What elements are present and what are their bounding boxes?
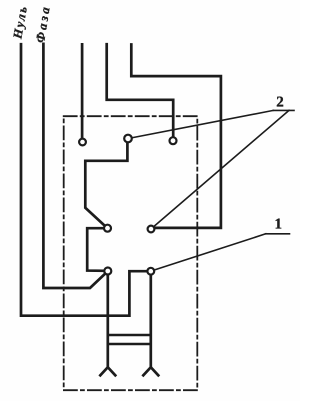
svg-text:2: 2 xyxy=(276,94,284,110)
callout 1 leader horizontal xyxy=(266,233,290,235)
callout 1 leader to lamp contact xyxy=(155,234,266,270)
switch contact (node 2, upper) xyxy=(124,135,132,143)
contact node 2 lower xyxy=(148,226,155,233)
callout 2 leader to switch contact upper xyxy=(133,110,273,137)
callout 2 leader to switch contact lower xyxy=(154,110,289,226)
svg-text:Фаза: Фаза xyxy=(33,4,53,44)
switch arm wire from contact 2 down to contact pair xyxy=(85,143,127,225)
svg-text:1: 1 xyxy=(275,217,283,233)
socket contact A xyxy=(79,139,86,146)
enclosure dash-dot box xyxy=(64,116,198,390)
contact lower-left xyxy=(104,268,111,275)
heater pin left plug fork xyxy=(100,367,115,375)
heater pin right plug fork xyxy=(143,367,158,375)
heater pin left xyxy=(106,275,109,367)
wire neutral (Нуль): left vertical, bottom run, up to lamp-side contact xyxy=(21,44,146,316)
wire to switch fixed contact xyxy=(131,45,221,228)
wire phase (Фаза): vertical, lower run, diagonal to moving contact xyxy=(43,44,104,288)
svg-text:Нуль: Нуль xyxy=(10,4,30,41)
heating element bar top xyxy=(108,334,151,336)
wire to socket contact B xyxy=(107,44,174,136)
socket contact B xyxy=(170,137,177,144)
heater pin right xyxy=(149,275,152,367)
heating element bar bottom xyxy=(108,343,151,345)
contact upper-left xyxy=(104,225,111,232)
contact node 1 xyxy=(147,268,154,275)
wire to socket contact A xyxy=(81,44,84,137)
link wire between left contacts xyxy=(87,228,103,271)
callout 2 leader horizontal xyxy=(273,109,294,111)
